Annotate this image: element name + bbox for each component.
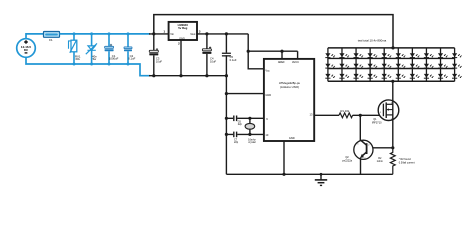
LED string column 3 (3 series LEDs) <box>353 48 363 81</box>
wire top rail blue-to-black to regulator pin 1 <box>149 33 169 35</box>
svg-text:F1: F1 <box>49 38 53 42</box>
capacitor C4 10uF <box>202 32 216 77</box>
junction top rail x=74 <box>73 32 76 35</box>
MCU U1 ATMega328p-pu (Arduino UNO) <box>264 59 314 141</box>
note R2 selection annotation <box>399 158 415 164</box>
wire AVCC pin stub <box>297 51 299 59</box>
capacitor C3 10uF <box>149 34 162 76</box>
transistor Q2 pn2222a <box>342 140 373 174</box>
svg-text:10uF: 10uF <box>156 60 162 64</box>
svg-text:pn2222a: pn2222a <box>342 160 352 163</box>
node 12V junction <box>152 32 155 35</box>
voltage source V1 12-16.5 DC <box>17 39 36 58</box>
MOSFET Q1 IRF3710 <box>372 100 399 125</box>
wire regulator pin 2 to ground rail <box>180 40 182 76</box>
capacitor C5 0.1uF <box>222 32 237 62</box>
LED string column 1 (3 series LEDs) <box>325 48 335 81</box>
junction bottom rail x=91.6 <box>90 63 93 66</box>
varistor RV1 60v <box>69 34 81 64</box>
svg-text:22p: 22p <box>238 123 243 126</box>
svg-text:0.5/fail current: 0.5/fail current <box>399 161 415 164</box>
svg-text:3: 3 <box>199 29 201 33</box>
wire AREF pin stub <box>280 50 283 53</box>
wire Q2 base to source node <box>367 147 393 149</box>
svg-text:GND: GND <box>265 93 271 97</box>
capacitor C6 22p <box>225 116 264 126</box>
LED array cathode bus <box>328 80 455 82</box>
svg-text:0.1uF: 0.1uF <box>230 58 237 62</box>
node LED feed junction <box>391 46 394 49</box>
wire MCU pin 13 to R1 <box>314 114 339 116</box>
LED string column 7 (3 series LEDs) <box>410 48 420 81</box>
svg-text:AVCC: AVCC <box>292 60 299 64</box>
svg-text:Vcc: Vcc <box>265 69 270 73</box>
svg-text:5v Reg: 5v Reg <box>178 26 187 30</box>
svg-text:0.1uF: 0.1uF <box>128 57 135 61</box>
svg-text:teal total 10.4v 800ma: teal total 10.4v 800ma <box>358 38 387 42</box>
capacitor C2 0.1uF <box>124 34 136 64</box>
wire regulator pin 3 output 5V rail <box>197 33 248 35</box>
junction top rail x=128 <box>127 32 130 35</box>
wire gate node down to Q2 collector <box>359 115 361 140</box>
junction top rail x=91.6 <box>90 32 93 35</box>
wire MCU GND pin to ground bus <box>225 92 228 95</box>
svg-text:IRF3710: IRF3710 <box>372 122 382 125</box>
wire R1 to gate node <box>353 114 384 116</box>
svg-text:10uF: 10uF <box>210 59 216 63</box>
svg-text:Vout: Vout <box>190 32 195 36</box>
svg-text:crystal: crystal <box>248 141 256 144</box>
junction bottom rail x=74 <box>73 63 76 66</box>
svg-text:GND: GND <box>289 136 295 140</box>
junction bottom rail x=109 <box>108 63 111 66</box>
ground symbol <box>315 173 327 185</box>
LED string column 4 (3 series LEDs) <box>368 48 378 81</box>
capacitor C1 1000uF <box>105 34 119 64</box>
wire 5V to Vcc / AREF / AVCC <box>248 34 264 69</box>
svg-text:1000uF: 1000uF <box>109 57 119 61</box>
LED string column 2 (3 series LEDs) <box>339 48 349 81</box>
node Q1 source / R2 top junction <box>391 146 394 149</box>
wire F1 to regulator input (blue part) <box>60 33 151 35</box>
wire bottom return rail (blue) <box>26 57 150 75</box>
crystal X1 16mhz <box>245 117 256 144</box>
svg-text:60v: 60v <box>75 57 80 61</box>
zener diode D1 40v <box>86 34 97 64</box>
voltage regulator U2 LM2940 5v <box>163 22 200 45</box>
wire bottom rail (black) <box>149 75 226 77</box>
wire ground rail <box>226 173 392 175</box>
capacitor C7 22p <box>225 132 264 144</box>
junction bottom rail x=128 <box>127 63 130 66</box>
resistor R2 1ohm <box>377 148 396 175</box>
wire V1+ up to top rail <box>26 34 44 39</box>
node LED cathode bus to drain junction <box>391 80 394 83</box>
wire 12V feed to LED array <box>154 15 393 48</box>
LED string column 5 (3 series LEDs) <box>382 48 392 81</box>
LED array middle bus 1 <box>328 57 455 59</box>
LED array anode bus (12V) <box>328 47 455 49</box>
node gate junction <box>359 114 362 117</box>
svg-text:AREF: AREF <box>278 60 285 64</box>
LED string column 9 (3 series LEDs) <box>438 48 448 81</box>
fuse F1 <box>44 32 60 43</box>
svg-text:R1 10k: R1 10k <box>341 109 350 113</box>
svg-text:GND: GND <box>179 36 185 40</box>
wire ground bus down left of MCU <box>225 55 227 174</box>
svg-text:22p: 22p <box>234 141 239 144</box>
LED string column 8 (3 series LEDs) <box>424 48 434 81</box>
LED array middle bus 2 <box>328 68 455 70</box>
junction top rail x=109 <box>108 32 111 35</box>
svg-text:Vin: Vin <box>170 32 174 36</box>
LED string column 6 (3 series LEDs) <box>396 48 406 81</box>
junction C3 bottom <box>152 74 155 77</box>
LED string column 10 (3 series LEDs) <box>452 48 462 81</box>
svg-text:(Arduino UNO): (Arduino UNO) <box>280 85 299 89</box>
wire LED cathode bus through Q1 drain-source to R2 <box>392 81 394 148</box>
wire MCU bottom GND to ground rail <box>283 141 285 174</box>
svg-text:2: 2 <box>178 41 180 45</box>
svg-text:1: 1 <box>163 29 165 33</box>
svg-text:1ohm: 1ohm <box>377 160 383 163</box>
resistor R1 10k <box>339 109 353 118</box>
